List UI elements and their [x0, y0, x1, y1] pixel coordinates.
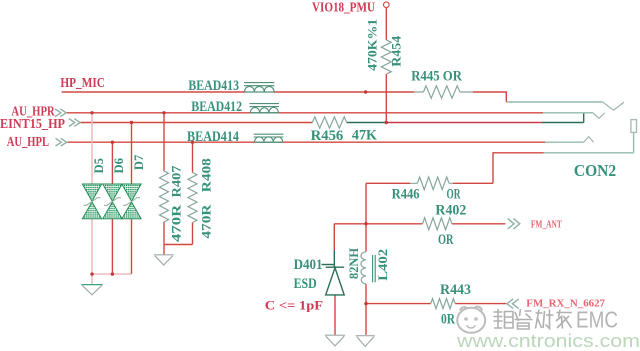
svg-text:D6: D6	[111, 158, 126, 174]
svg-text:OR: OR	[438, 232, 454, 248]
svg-text:VIO18_PMU: VIO18_PMU	[312, 0, 375, 15]
svg-text:FM_ANT: FM_ANT	[531, 220, 562, 231]
svg-text:D7: D7	[131, 154, 146, 170]
svg-text:R454: R454	[389, 35, 404, 67]
svg-text:L402: L402	[375, 249, 390, 281]
svg-text:OR: OR	[447, 187, 461, 203]
svg-text:R445 OR: R445 OR	[411, 69, 462, 85]
svg-text:R446: R446	[392, 187, 420, 203]
svg-text:EINT15_HP: EINT15_HP	[0, 117, 65, 132]
svg-text:R443: R443	[440, 282, 471, 298]
svg-text:CON2: CON2	[574, 161, 616, 180]
svg-text:BEAD414: BEAD414	[187, 129, 239, 145]
svg-text:47K: 47K	[352, 128, 377, 144]
svg-text:R408: R408	[198, 158, 213, 193]
svg-text:EMC: EMC	[576, 307, 618, 333]
svg-text:470K%1: 470K%1	[365, 19, 380, 71]
svg-text:D401: D401	[294, 257, 323, 273]
svg-text:D5: D5	[91, 158, 106, 174]
svg-text:AU_HPL: AU_HPL	[7, 135, 49, 150]
svg-text:0R: 0R	[441, 312, 455, 328]
svg-text:R456: R456	[311, 128, 344, 144]
svg-text:ESD: ESD	[294, 276, 317, 292]
svg-text:HP_MIC: HP_MIC	[60, 76, 105, 91]
svg-text:BEAD412: BEAD412	[191, 99, 242, 115]
svg-text:www.cntronics.com: www.cntronics.com	[456, 330, 640, 351]
svg-text:470R: 470R	[198, 204, 213, 239]
svg-text:C <= 1pF: C <= 1pF	[265, 297, 323, 312]
svg-text:470R: 470R	[168, 204, 183, 242]
svg-text:82NH: 82NH	[346, 248, 361, 279]
svg-text:R407: R407	[168, 165, 183, 198]
svg-text:BEAD413: BEAD413	[188, 78, 239, 94]
svg-text:R402: R402	[435, 203, 466, 219]
